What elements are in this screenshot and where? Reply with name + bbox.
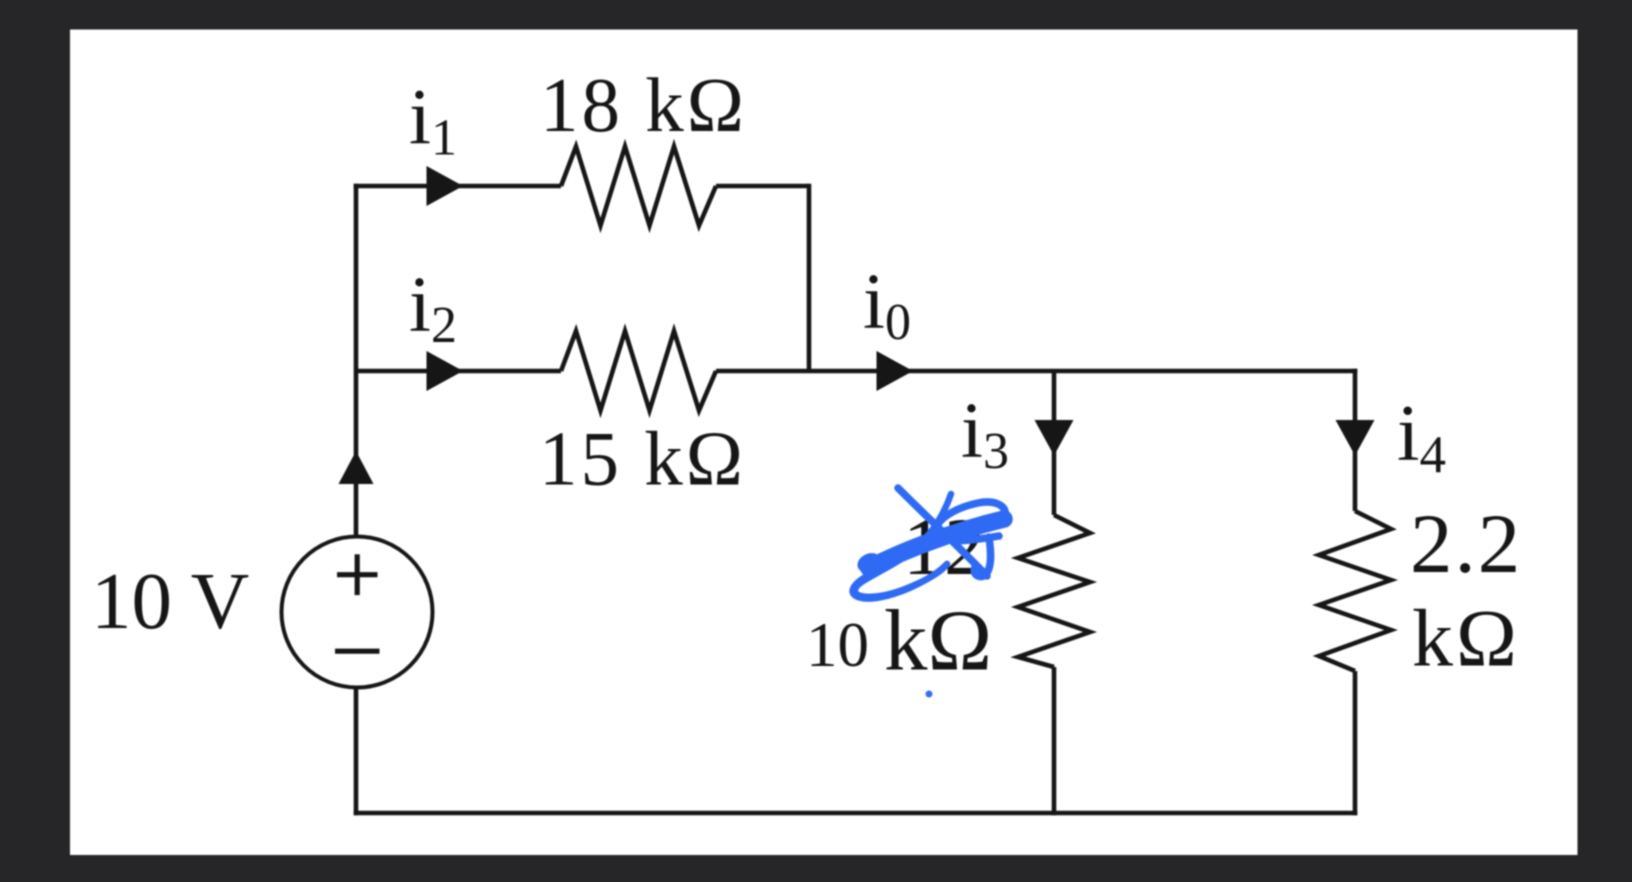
wire: i4 branch top lead: [1353, 369, 1358, 511]
wire: i3 branch bottom lead: [1052, 667, 1057, 815]
voltage source plus sign: [337, 554, 378, 595]
arrow for current i0: [877, 351, 914, 391]
wire: right side of top loop: [807, 184, 812, 371]
resistor R1 18 kOhm zigzag: [561, 147, 716, 226]
voltage source minus sign: [335, 649, 380, 654]
svg-text:kΩ: kΩ: [884, 592, 992, 689]
resistor R4 2.2 kOhm zigzag: [1319, 511, 1391, 671]
arrow into source node (up): [339, 451, 374, 484]
svg-text:15 kΩ: 15 kΩ: [539, 416, 746, 502]
svg-text:18 kΩ: 18 kΩ: [540, 62, 747, 148]
blue scribble annotation crossing out old value: [853, 488, 1006, 599]
blue blob at left end of fat stroke: [855, 550, 885, 576]
wire: bottom return bus: [354, 811, 1358, 816]
voltage source V1 circle: [282, 537, 433, 688]
svg-text:2.2: 2.2: [1410, 497, 1522, 591]
wire: i2 branch left lead: [356, 369, 561, 374]
wire: i4 branch bottom lead: [1353, 671, 1358, 815]
svg-text:10: 10: [806, 610, 869, 680]
wire: i1 branch left lead: [354, 184, 561, 189]
wire: left bus vertical (top branch corner down to source top): [354, 184, 359, 537]
resistor R3 10 kOhm zigzag: [1018, 515, 1090, 667]
wire: source bottom to bottom bus: [354, 687, 359, 815]
arrow for current i1: [427, 166, 464, 206]
arrow for current i4 (down): [1336, 420, 1375, 456]
arrow for current i3 (down): [1035, 420, 1074, 456]
blue dot below kOhm: [926, 691, 933, 698]
resistor R2 15 kOhm zigzag: [561, 331, 716, 411]
arrow for current i2: [427, 351, 464, 391]
wire: i1 branch right lead: [716, 184, 809, 189]
svg-text:kΩ: kΩ: [1412, 593, 1520, 684]
wire: i2 right lead / i0 line to right branch: [716, 369, 1357, 374]
svg-text:10 V: 10 V: [91, 556, 249, 646]
wire: i3 branch top lead: [1052, 371, 1057, 515]
